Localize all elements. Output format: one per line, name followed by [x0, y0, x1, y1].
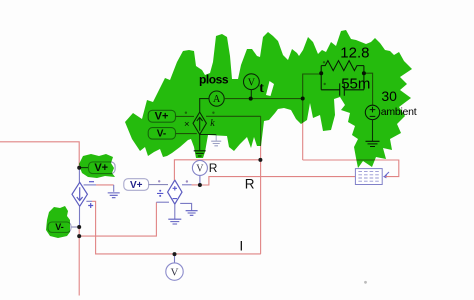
- capacitor C 55m: [321, 83, 364, 95]
- ammeter ploss: [209, 91, 224, 106]
- wire RC right to source ambient: [364, 73, 373, 105]
- label minus of SRC1: [89, 181, 94, 183]
- svg-text:R: R: [209, 161, 218, 175]
- wire left feed: [0, 142, 79, 166]
- wire source ambient to ground: [372, 120, 374, 141]
- wire V- to SRC3 bottom: [176, 133, 197, 135]
- voltmeter PR2 (bottom V): [166, 254, 183, 280]
- voltmeter PR1 (V R): [192, 160, 207, 184]
- wire SRC1 minus to ground: [84, 184, 96, 186]
- wire down left rail: [78, 227, 80, 296]
- wire SRC2 top to net line: [174, 160, 260, 180]
- label V-: [48, 222, 71, 232]
- component FILE1 (data box): [355, 169, 389, 185]
- label plus of SRC1: [88, 203, 93, 208]
- ground GND2: [168, 219, 181, 224]
- stray mark: [364, 281, 367, 284]
- label plus inside SRC2: [173, 186, 177, 190]
- wire SRC1 plus output: [86, 200, 92, 202]
- resistor R 12.8: [321, 61, 364, 90]
- voltmeter t: [244, 74, 260, 99]
- svg-text:I: I: [239, 237, 243, 253]
- ground GND5 (grey): [211, 141, 221, 146]
- source V ambient 30: [365, 105, 379, 119]
- svg-text:R: R: [245, 177, 255, 192]
- wire node t up to RC: [303, 74, 322, 99]
- label divide of SRC2: [157, 190, 163, 197]
- source SRC1 (left controlled source, diamond): [72, 182, 87, 206]
- node markers (open terminals): [185, 61, 326, 114]
- wire node R to box: [200, 177, 356, 185]
- wire V+ to SRC3: [176, 115, 195, 117]
- wire V- label lead: [71, 226, 78, 228]
- wire SRC3 right output: [206, 115, 261, 117]
- wire SRC2 lower right: [180, 203, 191, 210]
- ground GND3: [186, 211, 198, 216]
- wire SRC3 bottom to grounds: [199, 135, 201, 151]
- label minus inside SRC2: [173, 198, 177, 200]
- wire lead to source SRC1 top: [78, 168, 80, 183]
- wire net I branch: [79, 202, 156, 236]
- ground GND6: [366, 141, 380, 146]
- wire SRC2 upper right to node R: [182, 184, 192, 186]
- ground GND4: [194, 151, 206, 156]
- label V+ (left, highlighted): [80, 162, 115, 174]
- label V+ (top subcircuit): [148, 110, 175, 122]
- svg-text:V: V: [196, 163, 204, 174]
- source SRC2 (right controlled source, diamond): [168, 180, 182, 204]
- wire to SRC2 lower left: [156, 201, 169, 203]
- wire vertical net I right side: [260, 116, 262, 254]
- wire SRC1 bottom lead: [79, 206, 81, 227]
- wire from node ploss down: [302, 99, 304, 161]
- highlight blob V-: [46, 206, 70, 238]
- wire box right to net I loop: [303, 160, 399, 177]
- wire ammeter to node t: [224, 98, 303, 100]
- svg-text:V: V: [171, 267, 179, 279]
- ground GND1: [108, 193, 120, 198]
- label V+ (middle): [124, 179, 149, 191]
- label V- (top subcircuit): [148, 128, 175, 140]
- wire SRC3 top to ammeter: [200, 99, 209, 113]
- wire SRC2 bottom lead: [174, 204, 176, 219]
- highlight blob V+: [79, 154, 115, 178]
- source SRC3 (top diamond, power source): [193, 112, 206, 134]
- highlight scribble main: [125, 30, 412, 168]
- svg-text:V+: V+: [130, 180, 143, 191]
- wire V+ middle to SRC2: [149, 184, 168, 186]
- highlight slash gap: [266, 81, 274, 96]
